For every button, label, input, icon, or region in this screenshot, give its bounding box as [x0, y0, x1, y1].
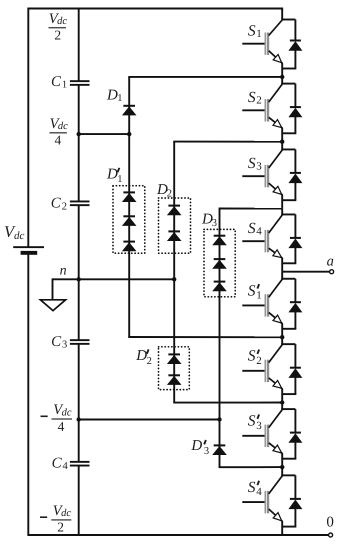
diode D1' series c — [122, 241, 137, 252]
label C3 — [51, 334, 67, 351]
label D2' — [135, 348, 152, 367]
svg-text:2: 2 — [147, 356, 152, 367]
wire S4' antiparallel-diode branch — [281, 475, 296, 526]
diode S3 antiparallel — [288, 172, 302, 183]
wire S1' top stub — [281, 272, 283, 280]
junction dot Vdc/4 at D1 column — [127, 132, 131, 136]
svg-text:C: C — [51, 74, 62, 90]
junction dot -Vdc/4 at capacitor rail — [77, 417, 81, 421]
label Vdc (source value) — [4, 222, 25, 242]
label C4 — [52, 455, 69, 472]
IGBT S4 — [242, 214, 282, 258]
diode D1' series b — [122, 215, 137, 226]
junction dot J5 (S1'/S2') — [280, 335, 284, 339]
wire S3' antiparallel-diode branch — [281, 409, 296, 459]
junction dot Vdc/4 at capacitor rail — [77, 132, 81, 136]
wire S1 bottom stub — [281, 63, 283, 77]
svg-text:3: 3 — [204, 446, 209, 457]
svg-text:2: 2 — [256, 95, 262, 107]
wire S3' top stub — [281, 403, 283, 411]
wire left rail lower (battery to -Vdc/2) — [27, 254, 29, 535]
svg-text:4: 4 — [55, 133, 62, 148]
svg-text:S: S — [248, 89, 256, 106]
svg-text:4: 4 — [256, 486, 262, 498]
svg-text:1: 1 — [117, 93, 122, 104]
label -Vdc/4 (level tap) — [41, 402, 73, 434]
diode S2' antiparallel — [288, 367, 302, 378]
svg-text:2: 2 — [167, 188, 172, 199]
svg-text:S: S — [248, 22, 256, 39]
svg-text:2: 2 — [57, 520, 64, 535]
wire ground stub — [52, 278, 54, 299]
svg-text:1: 1 — [62, 80, 67, 91]
svg-text:D: D — [106, 87, 118, 103]
svg-text:dc: dc — [62, 407, 72, 418]
wire D1-prime column vertical — [128, 134, 130, 337]
svg-text:C: C — [51, 196, 62, 212]
diode D2' series b — [167, 374, 182, 385]
wire D1 column vertical — [128, 77, 130, 134]
diode S4 antiparallel — [288, 237, 302, 248]
junction dot J1 (S1/S2) — [280, 75, 284, 79]
wire J5 clamp wire — [128, 336, 282, 338]
svg-text:dc: dc — [58, 121, 68, 132]
svg-text:3: 3 — [62, 340, 67, 351]
IGBT S1' — [242, 279, 282, 324]
IGBT S3 — [242, 149, 282, 195]
wire capacitor rail seg1 — [78, 9, 80, 81]
label C1 — [51, 74, 67, 91]
wire S2' bottom stub — [281, 389, 283, 403]
wire S2 antiparallel-diode branch — [281, 84, 296, 134]
IGBT S3' — [242, 409, 282, 454]
label D1 — [106, 87, 123, 104]
diode S4' antiparallel — [288, 498, 302, 509]
diode D3 series c — [212, 281, 227, 292]
svg-text:3: 3 — [256, 420, 262, 432]
svg-text:S: S — [248, 348, 256, 365]
voltage source Vdc battery short plate — [21, 251, 38, 255]
label Vdc/2 (top level) — [49, 11, 68, 43]
wire S2 top stub — [281, 77, 283, 85]
diode D2' series a — [167, 353, 182, 364]
capacitor C1 — [70, 80, 90, 86]
svg-text:1: 1 — [256, 28, 262, 40]
svg-text:2: 2 — [54, 28, 61, 43]
wire S3 antiparallel-diode branch — [281, 149, 296, 200]
wire S1 antiparallel-diode branch — [281, 20, 296, 69]
wire S2' antiparallel-diode branch — [281, 344, 296, 394]
dotted box D3 — [204, 229, 235, 296]
svg-text:S: S — [248, 155, 256, 172]
IGBT S2' — [242, 344, 282, 389]
wire S4 bottom stub — [281, 258, 283, 272]
junction dot -Vdc/4 at D3 column — [217, 417, 221, 421]
wire output a — [282, 271, 330, 273]
wire S2' top stub — [281, 337, 283, 345]
wire S4' bottom stub — [281, 521, 283, 535]
label S2' — [248, 348, 262, 367]
wire S4' top stub — [281, 467, 283, 476]
label S4 — [248, 220, 262, 238]
diode S1 antiparallel — [288, 40, 302, 51]
svg-text:3: 3 — [212, 218, 217, 229]
diode D1 — [122, 105, 137, 116]
IGBT S1 — [242, 20, 282, 64]
wire S3 bottom stub — [281, 195, 283, 209]
wire capacitor rail seg2 — [78, 85, 80, 201]
wire -Vdc/4 tap — [79, 419, 220, 421]
wire S3 top stub — [281, 142, 283, 151]
dotted box D2' — [159, 347, 190, 390]
diode D3' — [212, 444, 227, 455]
capacitor C4 — [70, 461, 90, 467]
label S4' — [248, 479, 262, 498]
svg-text:dc: dc — [61, 508, 71, 519]
wire left rail upper (Vdc+ to battery) — [27, 9, 29, 247]
diode D3 series a — [212, 235, 227, 246]
label S3' — [248, 413, 262, 432]
label C2 — [51, 196, 67, 213]
diode S3' antiparallel — [288, 432, 302, 443]
junction dot J7 (S3'/S4') — [280, 465, 284, 469]
wire J7 clamp wire — [219, 466, 283, 468]
svg-text:3: 3 — [256, 160, 262, 172]
wire S1' antiparallel-diode branch — [281, 279, 296, 329]
label n — [60, 264, 67, 279]
wire S3' bottom stub — [281, 453, 283, 467]
wire S4 antiparallel-diode branch — [281, 214, 296, 263]
wire capacitor rail seg5 — [78, 466, 80, 535]
svg-text:2: 2 — [62, 201, 67, 212]
label Vdc/4 (level tap) — [49, 116, 68, 148]
IGBT S2 — [242, 84, 282, 129]
svg-text:0: 0 — [326, 515, 334, 531]
wire Vdc/4 tap — [79, 133, 130, 135]
label S1' — [248, 282, 262, 301]
svg-text:D: D — [135, 348, 147, 364]
svg-text:C: C — [51, 334, 62, 350]
label a — [327, 253, 334, 269]
label S3 — [248, 155, 262, 173]
label D2 — [156, 182, 172, 199]
svg-text:4: 4 — [256, 225, 262, 237]
svg-text:1: 1 — [117, 174, 122, 185]
svg-text:S: S — [248, 479, 256, 496]
label D3 — [201, 211, 217, 229]
label S2 — [248, 89, 262, 107]
wire S4 top stub — [281, 209, 283, 216]
ground symbol — [40, 300, 65, 311]
diode D2 series b — [167, 230, 182, 241]
svg-text:C: C — [52, 455, 63, 471]
wire J1 clamp wire — [128, 76, 282, 78]
dotted box D2 — [159, 198, 191, 253]
svg-text:n: n — [60, 264, 67, 279]
diode S1' antiparallel — [288, 301, 302, 312]
wire capacitor rail seg4 — [78, 344, 80, 461]
wire S1 top stub — [281, 9, 283, 21]
svg-text:a: a — [327, 253, 334, 269]
diode S2 antiparallel — [288, 106, 302, 117]
svg-text:4: 4 — [58, 419, 65, 434]
terminal 0 circle — [329, 533, 333, 537]
label D1' — [106, 166, 123, 185]
wire S2 bottom stub — [281, 128, 283, 142]
svg-text:1: 1 — [256, 289, 262, 301]
svg-text:D: D — [106, 166, 118, 182]
capacitor C3 — [70, 339, 90, 345]
diode D2 series a — [167, 205, 182, 216]
wire J2 clamp wire — [173, 141, 282, 143]
wire capacitor rail seg3 — [78, 206, 80, 340]
dotted box D1' — [113, 186, 145, 254]
wire top bus — [27, 8, 283, 10]
svg-text:S: S — [248, 220, 256, 237]
label D3' — [190, 438, 209, 457]
IGBT S4' — [242, 475, 282, 521]
terminal a circle — [330, 270, 334, 274]
wire J3 clamp wire — [219, 208, 283, 210]
wire J6 clamp wire — [173, 402, 282, 404]
diode D3 series b — [212, 258, 227, 269]
svg-text:dc: dc — [57, 16, 67, 27]
wire D3 column vertical — [219, 209, 221, 468]
label -Vdc/2 (bottom level) — [40, 503, 71, 535]
svg-text:S: S — [248, 413, 256, 430]
voltage source Vdc battery long plate — [13, 246, 44, 248]
diode D1' series a — [122, 191, 137, 202]
label S1 — [248, 22, 262, 40]
svg-text:D: D — [190, 438, 202, 454]
wire bottom bus — [27, 534, 330, 536]
svg-text:2: 2 — [256, 355, 262, 367]
junction dot J6 (S2'/S3') — [280, 400, 284, 404]
capacitor C2 — [70, 201, 90, 207]
svg-text:S: S — [248, 282, 256, 299]
junction dot n at capacitor rail — [77, 277, 81, 281]
wire D2 column vertical — [173, 142, 175, 403]
junction dot J2 (S2/S3) — [280, 140, 284, 144]
wire S1' bottom stub — [281, 323, 283, 337]
junction dot n at D2 column — [172, 277, 176, 281]
wire node n — [53, 278, 175, 280]
svg-text:dc: dc — [14, 230, 25, 242]
label 0 — [326, 515, 334, 531]
svg-text:4: 4 — [63, 461, 69, 472]
